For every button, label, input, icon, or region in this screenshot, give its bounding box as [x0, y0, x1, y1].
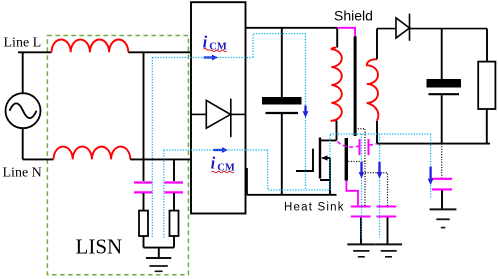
heat sink ground path (magenta) — [346, 181, 358, 206]
CM path jog up (cyan dotted) — [253, 34, 306, 58]
CM path rise at source (cyan dotted) — [329, 134, 331, 190]
CM current arrow (top, blue, right) — [204, 55, 219, 61]
wire Line N horizontal — [23, 158, 54, 160]
wire C6 to ground — [387, 218, 389, 245]
heat sink plate — [345, 138, 348, 181]
ground (C5) — [347, 244, 375, 256]
wire T1 primary top lead — [336, 28, 338, 48]
CM path drop through C5 (cyan dotted) — [361, 134, 363, 238]
wire bulk cap bottom lead — [281, 114, 283, 195]
wire secondary right corner — [486, 29, 488, 62]
wire LISN branch 1 vertical — [143, 52, 145, 181]
CM path top horizontal (cyan dotted) — [152, 57, 253, 59]
wire output cap bottom lead — [441, 95, 443, 143]
transformer T1 secondary winding — [367, 59, 379, 121]
wire L1 to rectifier — [128, 51, 191, 53]
Q1 source wire — [320, 180, 330, 195]
svg-text:Line L: Line L — [4, 35, 42, 50]
Q1 gate lead — [296, 149, 313, 171]
CM path drop through C6 (cyan dotted) — [379, 134, 381, 238]
wire C8 to ground — [441, 190, 443, 209]
LISN enclosure (green dashed box) — [47, 36, 188, 275]
CM path drop at bulk cap (cyan dotted) — [305, 34, 307, 190]
capacitor C2 (LISN, magenta) — [165, 183, 184, 193]
CM path step down (cyan dotted) — [268, 150, 330, 190]
CM path drop to output ground (cyan dotted) — [430, 134, 432, 198]
ground (C8) — [430, 209, 457, 227]
ground (C6) — [375, 244, 402, 256]
CM arrow down (bulk cap, blue) — [303, 106, 309, 118]
Q1 source arrow — [329, 158, 331, 180]
parasitic path heat sink branch (black dotted) — [348, 161, 365, 163]
wire secondary return rail — [377, 143, 490, 145]
resistor R1 — [139, 211, 148, 236]
inductor L2 (line choke, bottom) — [54, 147, 131, 160]
Q1 drain wire — [320, 139, 337, 141]
CM path bottom horizontal (cyan dotted) — [164, 149, 268, 151]
wire R2 bottom — [173, 236, 175, 248]
wire C1 to R1 — [143, 193, 145, 211]
capacitor C3 (DC bulk) — [262, 97, 302, 113]
parasitic link C4 to secondary (magenta dashed) — [369, 144, 377, 145]
label i_CM (bottom) — [211, 154, 235, 174]
CM arrow down (C5, blue) — [359, 162, 365, 178]
wire AC source top lead — [22, 52, 24, 93]
capacitor C7 (output) — [427, 79, 462, 94]
parasitic path to C6 (black dotted) — [365, 173, 388, 206]
svg-text:Shield: Shield — [334, 8, 373, 24]
wire T1 secondary bottom lead — [376, 121, 378, 144]
wire output cap top lead — [441, 29, 443, 79]
CM path LISN drop 1 (cyan dotted) — [151, 58, 153, 239]
wire R3 bottom lead — [486, 109, 488, 144]
wire C5 to ground — [360, 218, 362, 245]
resistor R2 — [170, 211, 179, 236]
capacitor C8 (output Y-cap, magenta) — [432, 179, 452, 190]
wire LISN branch 2 vertical — [173, 159, 175, 181]
shield connection (magenta) — [337, 28, 355, 36]
resistor R3 (load) — [478, 62, 495, 109]
svg-text:i: i — [211, 154, 216, 173]
wire T1 primary bottom lead — [336, 121, 338, 141]
wire L2 to rectifier — [130, 158, 191, 160]
transformer T1 primary winding — [332, 48, 342, 121]
capacitor C6 (Y-cap, magenta) — [377, 207, 397, 217]
capacitor C1 (LISN, magenta) — [134, 183, 153, 193]
wire DC top rail — [246, 27, 338, 29]
label i_CM (top) — [203, 32, 227, 52]
ground (LISN) — [146, 258, 171, 271]
wire bulk cap top lead — [281, 28, 283, 97]
diode D2 (output) — [377, 14, 487, 41]
wire LISN ground join — [144, 247, 175, 249]
svg-text:Heat Sink: Heat Sink — [284, 202, 345, 214]
diode D1 (inside rectifier) — [191, 99, 245, 138]
wire Line L horizontal — [18, 51, 52, 53]
capacitor C5 (heatsink Y-cap, magenta) — [351, 207, 371, 217]
wire C2 to R2 — [173, 193, 175, 211]
MOSFET Q1 — [296, 138, 337, 195]
capacitor C4 (interwinding, magenta) — [360, 139, 369, 155]
CM path LISN drop 2 (cyan dotted) — [163, 150, 165, 238]
Q1 channel bar — [319, 138, 321, 179]
AC source V1 — [6, 93, 41, 128]
svg-text:LISN: LISN — [76, 235, 123, 259]
wire primary bottom rail — [247, 194, 337, 196]
inductor L1 (line choke, top) — [52, 40, 129, 53]
CM arrow down (output, blue) — [428, 167, 434, 186]
wire R1 bottom — [143, 236, 145, 248]
parasitic link drain to C4 (magenta dashed) — [338, 142, 360, 148]
wire LISN ground stem — [158, 248, 160, 258]
parasitic path core to C5 (black dotted) — [358, 129, 365, 206]
transformer T1 core — [354, 36, 357, 136]
svg-text:Line N: Line N — [3, 165, 42, 180]
parasitic path rail to C8 (black dotted) — [441, 144, 443, 178]
CM arrow down (C6, blue) — [377, 162, 383, 178]
rectifier block U1 — [191, 2, 246, 213]
CM current arrow (bottom, blue, right) — [214, 147, 229, 153]
wire T1 secondary top lead — [376, 29, 378, 60]
wire AC source bottom lead — [22, 128, 24, 159]
CM path secondary horizontal (cyan dotted) — [330, 133, 431, 135]
wire rectifier bottom output — [245, 169, 247, 195]
